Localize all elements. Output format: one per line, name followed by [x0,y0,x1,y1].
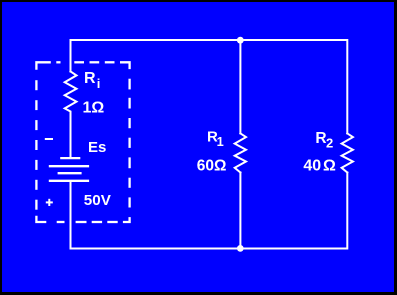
battery Es plate 4 (long) [49,180,89,182]
battery Es plate 3 (medium) [58,172,82,174]
node junction bottom [237,245,244,252]
resistor R2 [342,133,353,172]
battery Es plate 2 (long) [49,165,89,167]
wire top rail [71,40,348,133]
wire R1 branch top [239,40,241,133]
wire R1 branch bottom [239,173,241,249]
label minus polarity [45,138,53,140]
svg-text:40Ω: 40Ω [303,158,336,175]
dashed source box [36,62,129,222]
resistor R1 [235,133,246,172]
svg-text:50V: 50V [84,192,112,209]
resistor Ri [65,72,77,157]
wire bottom rail [71,173,348,249]
svg-text:1Ω: 1Ω [83,100,105,117]
svg-text:Es: Es [88,139,106,156]
battery Es plate 1 (short) [60,157,80,159]
svg-text:60Ω: 60Ω [197,157,227,174]
node junction top [237,37,244,44]
label plus polarity [46,199,53,206]
